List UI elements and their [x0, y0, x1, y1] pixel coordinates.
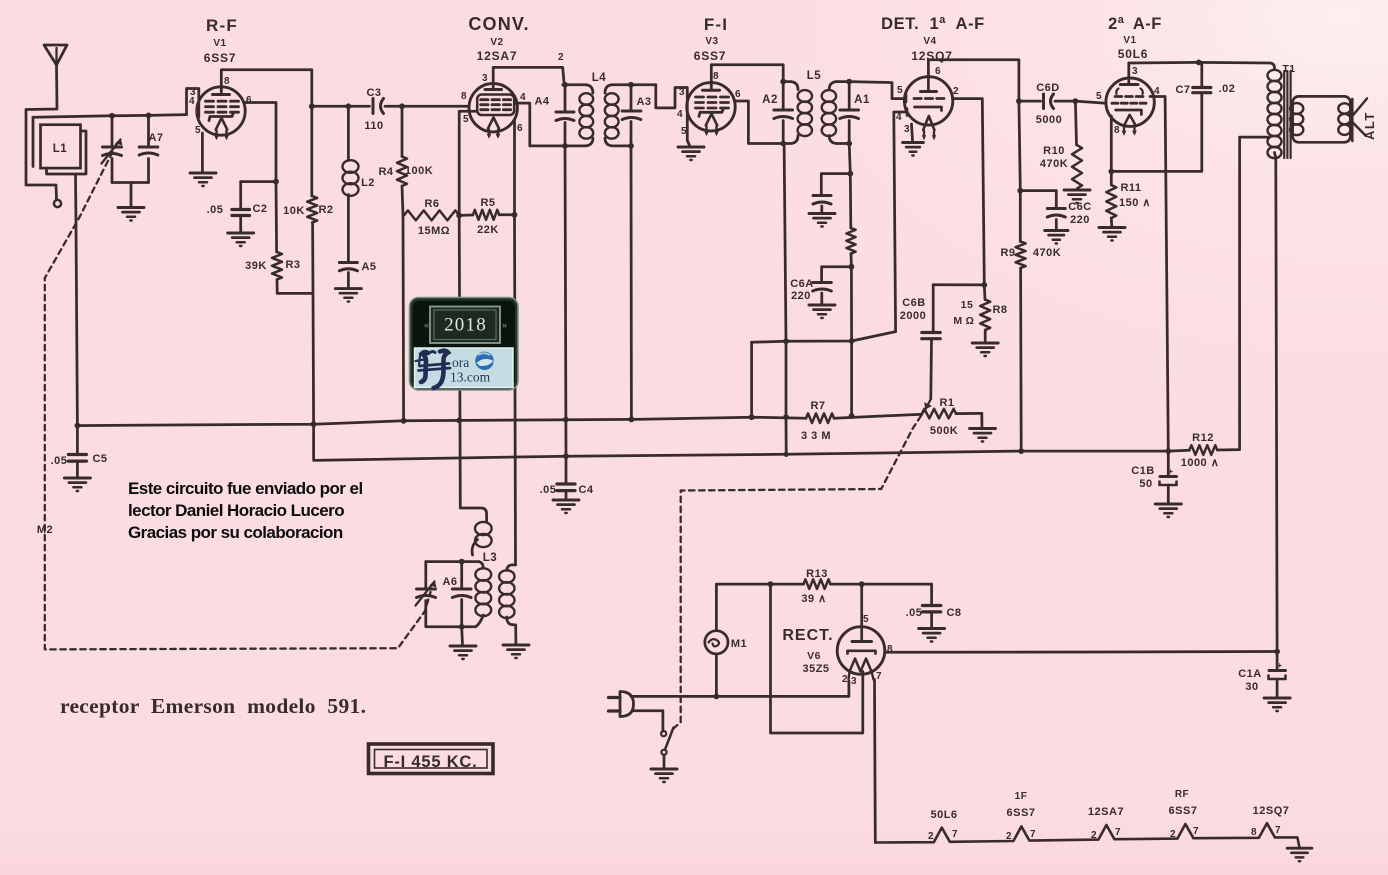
- wire 50L6 plate pin3: [1127, 63, 1130, 78]
- capacitor C5: [76, 426, 79, 453]
- node L4 prim bus2: [563, 453, 569, 459]
- svg-text:C8: C8: [946, 607, 961, 619]
- svg-text:3: 3: [482, 73, 488, 84]
- wire L3 tank top: [426, 560, 479, 563]
- svg-text:R10: R10: [1043, 145, 1065, 157]
- svg-text:C6D: C6D: [1036, 82, 1060, 94]
- svg-text:R-F: R-F: [206, 16, 238, 35]
- wire switch to ground: [663, 755, 666, 769]
- svg-text:A5: A5: [361, 261, 376, 273]
- svg-text:50L6: 50L6: [930, 809, 957, 821]
- svg-text:5000: 5000: [1036, 114, 1062, 126]
- gang dashed line M2 (tuning): [45, 143, 431, 649]
- wire R3 bottom to R2: [277, 280, 313, 294]
- resistor R3 39K: [272, 252, 282, 280]
- wire V4 pin2: [953, 99, 985, 285]
- svg-text:3: 3: [679, 87, 685, 98]
- node A4 bottom: [562, 143, 568, 149]
- svg-text:3: 3: [904, 124, 910, 135]
- svg-text:4: 4: [896, 112, 902, 123]
- svg-text:ALT: ALT: [1362, 111, 1377, 140]
- svg-text:.05: .05: [207, 204, 224, 216]
- node A3 bottom: [628, 143, 634, 149]
- svg-text:F-I 455 KC.: F-I 455 KC.: [383, 753, 477, 771]
- padder capacitor (osc, variable): [424, 562, 427, 589]
- resistor R6 15M: [404, 210, 459, 220]
- coil L3 feed: [475, 522, 492, 535]
- transformer T1 secondary: [1290, 103, 1303, 114]
- node C5: [75, 423, 81, 429]
- svg-text:ora: ora: [452, 355, 469, 370]
- wire R6 left to bus: [402, 215, 405, 420]
- node bus2 x1168: [1165, 448, 1171, 454]
- AVC bus wire: [77, 417, 806, 425]
- svg-text:L3: L3: [483, 552, 497, 564]
- svg-text:7: 7: [1275, 825, 1281, 836]
- ground filament string: [1287, 847, 1312, 850]
- svg-text:C5: C5: [92, 453, 107, 465]
- node C1A: [1274, 649, 1280, 655]
- ground L3 secondary: [503, 644, 529, 647]
- svg-text:R13: R13: [806, 568, 828, 580]
- node x786 bus1: [783, 414, 789, 420]
- coil L3 tank: [479, 562, 483, 568]
- svg-text:220: 220: [1070, 214, 1090, 226]
- node R13 left: [768, 581, 774, 587]
- ground C4: [553, 499, 579, 502]
- svg-text:470K: 470K: [1040, 158, 1068, 170]
- svg-text:7: 7: [876, 671, 882, 682]
- node plate line R2: [309, 103, 315, 109]
- node R11 top: [1108, 169, 1114, 175]
- node A1 bottom: [846, 141, 852, 147]
- svg-text:7: 7: [1030, 829, 1036, 840]
- coil L1 outer turn: [32, 117, 35, 166]
- capacitor C6C 220: [1020, 189, 1056, 192]
- ground R1: [970, 427, 996, 430]
- coil L1 box: [41, 125, 81, 168]
- wire V4 pin6 plate up: [928, 60, 1019, 101]
- svg-text:V4: V4: [923, 36, 936, 47]
- box F-I 455 KC: [369, 744, 494, 774]
- svg-text:8: 8: [461, 91, 467, 102]
- node x786 bus2: [784, 452, 789, 457]
- wire L2 to A5: [347, 195, 350, 262]
- ground below tuning caps: [118, 206, 144, 209]
- svg-text:6: 6: [935, 66, 941, 77]
- svg-text:10K: 10K: [283, 205, 305, 217]
- svg-text:500K: 500K: [930, 425, 958, 437]
- wire C2 branch: [241, 180, 276, 183]
- node bus1 x313: [311, 421, 317, 427]
- svg-text:C2: C2: [252, 203, 267, 215]
- speaker voice coil: [1338, 103, 1350, 113]
- tuning capacitor (gang, RF): [111, 116, 114, 147]
- svg-text:V6: V6: [807, 650, 821, 662]
- svg-text:2: 2: [953, 86, 959, 97]
- wire cap bottoms join: [112, 181, 149, 184]
- node C2 tap: [273, 179, 279, 185]
- speaker frame: [1293, 96, 1351, 142]
- wire V3 pin6: [735, 101, 783, 144]
- resistor R13 39: [771, 583, 804, 586]
- svg-text:M: M: [953, 315, 962, 327]
- svg-text:15MΩ: 15MΩ: [418, 225, 450, 237]
- svg-text:V1: V1: [1123, 35, 1136, 46]
- node A1 top: [846, 79, 852, 85]
- svg-text:3: 3: [1132, 66, 1138, 77]
- svg-text:+: +: [1168, 467, 1173, 476]
- svg-text:4: 4: [677, 109, 683, 120]
- svg-text:6: 6: [246, 95, 252, 106]
- ground power switch: [651, 768, 677, 771]
- capacitor C1B 50: [1167, 451, 1170, 474]
- svg-text:M2: M2: [37, 524, 53, 536]
- svg-text:5: 5: [897, 85, 903, 96]
- wire L5 secondary top to V4: [836, 82, 904, 99]
- resistor R8 15M: [983, 285, 986, 300]
- node A6 bottom: [459, 624, 465, 630]
- ground R11: [1099, 226, 1125, 229]
- wire M1 bottom: [715, 654, 718, 697]
- wire R13 right: [830, 583, 931, 586]
- resistor R2 10K: [307, 196, 317, 223]
- svg-text:.02: .02: [1219, 83, 1236, 95]
- node L2 top: [346, 103, 352, 109]
- wire 50L6 pin4 screen: [1150, 97, 1168, 452]
- svg-text:+: +: [1277, 661, 1282, 670]
- svg-text:8: 8: [1114, 125, 1120, 136]
- svg-text:R6: R6: [424, 198, 439, 210]
- wire V4 pin3 to ground: [912, 124, 913, 142]
- capacitor A2: [782, 82, 785, 110]
- svg-text:1000 ∧: 1000 ∧: [1181, 457, 1220, 469]
- wire L1 top to V1 grid: [33, 115, 187, 118]
- filament string wire: [875, 823, 1299, 848]
- antenna: [44, 45, 67, 65]
- node M1 bottom: [714, 694, 720, 700]
- svg-text:5: 5: [681, 126, 687, 137]
- svg-text:4: 4: [189, 96, 195, 107]
- ground C2: [228, 232, 254, 235]
- node R10 top: [1073, 98, 1079, 104]
- wire A2 node down to bus2: [784, 144, 786, 455]
- ground R10: [1064, 189, 1090, 192]
- svg-text:R3: R3: [285, 259, 300, 271]
- wire V1 plate pin8: [221, 70, 311, 107]
- antenna loop terminal: [54, 200, 61, 207]
- svg-text:A4: A4: [534, 96, 549, 108]
- node C6A tap: [849, 264, 855, 270]
- wire A3 top to V3 grid: [656, 85, 672, 108]
- wire L4 secondary top: [612, 83, 656, 86]
- power plug: [620, 692, 634, 717]
- svg-text:A7: A7: [148, 132, 163, 144]
- wire V2 pin4: [515, 103, 585, 146]
- svg-text:V2: V2: [490, 37, 503, 48]
- node C6D left: [1016, 98, 1022, 104]
- svg-text:V3: V3: [705, 36, 718, 47]
- ground R8: [972, 342, 998, 345]
- potentiometer R1 500K: [922, 409, 956, 419]
- node mid x786: [783, 338, 789, 344]
- svg-text:A2: A2: [762, 94, 778, 106]
- wire V2 pin6 down: [513, 119, 516, 215]
- tube V1 6SS7 R-F: [197, 87, 245, 135]
- ground V1 cathode: [190, 172, 216, 175]
- ground C6C: [1045, 229, 1068, 232]
- svg-text:A3: A3: [636, 96, 651, 108]
- svg-text:2ª A-F: 2ª A-F: [1108, 15, 1162, 33]
- svg-text:M1: M1: [731, 638, 747, 650]
- wire mid horizontal: [752, 332, 896, 343]
- coil L4 primary: [586, 85, 593, 93]
- svg-text:1F: 1F: [1015, 791, 1028, 802]
- svg-text:RECT.: RECT.: [782, 627, 833, 644]
- coil L2: [343, 160, 359, 173]
- svg-text:39K: 39K: [245, 260, 267, 272]
- svg-text:3: 3: [851, 676, 857, 687]
- node A4 top: [562, 82, 568, 88]
- watermark Hora13.com 2018: [410, 298, 519, 391]
- wire 50L6 cathode node: [1111, 95, 1202, 172]
- svg-text:»: »: [502, 320, 507, 330]
- svg-text:6: 6: [735, 89, 741, 100]
- resistor R12 1000: [1189, 445, 1217, 455]
- node R6 left bus1: [401, 418, 407, 424]
- svg-text:4: 4: [520, 92, 526, 103]
- svg-text:2: 2: [558, 52, 564, 63]
- node A6 top: [459, 559, 465, 565]
- wire R12 to T1 tap: [1217, 137, 1268, 450]
- svg-text:6: 6: [517, 123, 523, 134]
- wire V2 pin3 up: [493, 67, 564, 84]
- wire V1 pin6 down: [246, 103, 277, 253]
- wire heater tap loop: [771, 584, 863, 733]
- coil L4 secondary: [605, 85, 612, 93]
- ground A5: [335, 287, 361, 290]
- wire plate line to C3: [312, 105, 370, 108]
- svg-text:7: 7: [1193, 826, 1199, 837]
- capacitor C7 .02: [1193, 86, 1211, 89]
- svg-text:R9: R9: [1000, 247, 1015, 259]
- wire V2 pin5 to L3 feed: [459, 215, 486, 521]
- node mid-left bus1: [749, 414, 755, 420]
- svg-text:2000: 2000: [900, 310, 926, 322]
- wire L4 primary bottom to bus: [565, 146, 566, 456]
- arrow C6B to R1 wiper: [927, 399, 931, 408]
- svg-text:.05: .05: [906, 607, 923, 619]
- wire V3 plate pin8: [711, 65, 783, 86]
- capacitor A3: [630, 85, 633, 111]
- svg-text:C3: C3: [366, 87, 381, 99]
- svg-text:lector Daniel Horacio Lucero: lector Daniel Horacio Lucero: [128, 501, 344, 520]
- svg-text:R7: R7: [810, 400, 825, 412]
- resistor IF return: [849, 174, 852, 228]
- svg-text:3 3 M: 3 3 M: [801, 430, 831, 442]
- wire R2 top: [310, 106, 313, 196]
- wire L4 secondary to bus1: [630, 146, 633, 420]
- speaker cone: [1351, 99, 1354, 141]
- capacitor A5: [339, 261, 357, 264]
- svg-text:receptor Emerson modelo 591.: receptor Emerson modelo 591.: [60, 694, 366, 718]
- svg-text:12SA7: 12SA7: [1088, 806, 1124, 818]
- node tuning cap: [109, 113, 115, 119]
- node bypass cap tap: [847, 171, 853, 177]
- svg-text:R2: R2: [318, 204, 333, 216]
- wire L4 secondary bottom: [612, 145, 631, 148]
- capacitor C4: [565, 456, 568, 482]
- tube V2 12SA7 CONV: [469, 84, 517, 132]
- node V6 plate tap: [859, 581, 865, 587]
- node mid x851: [849, 338, 855, 344]
- ground C5: [64, 477, 90, 480]
- wire mid x851 to bus1: [850, 341, 853, 416]
- ground IF bypass cap: [809, 212, 835, 215]
- ground C1A: [1264, 697, 1290, 700]
- tube V4 12SQ7: [904, 77, 952, 125]
- node bus1 x459: [456, 418, 462, 424]
- svg-text:L4: L4: [592, 72, 607, 84]
- svg-text:C1A: C1A: [1238, 668, 1262, 680]
- svg-text:150 ∧: 150 ∧: [1119, 197, 1151, 209]
- svg-text:R8: R8: [992, 304, 1007, 316]
- svg-text:A6: A6: [442, 576, 457, 588]
- svg-text:35Z5: 35Z5: [802, 663, 829, 675]
- svg-text:F-I: F-I: [704, 15, 728, 34]
- wire V2 pin5 down: [459, 111, 477, 215]
- svg-text:2: 2: [842, 674, 848, 685]
- wire V1 cathode to ground: [201, 133, 204, 173]
- svg-text:220: 220: [791, 290, 811, 302]
- resistor R7 3.3M: [806, 413, 834, 423]
- switch contact top: [661, 731, 666, 736]
- svg-text:C7: C7: [1175, 84, 1190, 96]
- svg-text:Este circuito fue enviado por: Este circuito fue enviado por el: [128, 479, 363, 498]
- svg-text:50L6: 50L6: [1118, 47, 1149, 61]
- svg-text:R5: R5: [480, 197, 495, 209]
- node R4 top: [399, 103, 405, 109]
- capacitor C2: [232, 208, 250, 211]
- wire plug top prong: [631, 681, 849, 696]
- svg-text:7: 7: [1115, 827, 1121, 838]
- wire R9 top vertical: [1019, 101, 1020, 191]
- tube V1 50L6 2a A-F: [1106, 78, 1154, 126]
- wire R7 to R1: [834, 414, 922, 418]
- wire V6 pin7 down: [873, 680, 877, 843]
- wire C6D left: [1019, 100, 1041, 103]
- svg-text:DET. 1ª A-F: DET. 1ª A-F: [881, 15, 985, 33]
- tube V3 6SS7 F-I: [687, 83, 735, 131]
- svg-text:C6A: C6A: [790, 278, 814, 290]
- wire L3 secondary to ground: [514, 625, 517, 645]
- transformer T1 core: [1283, 71, 1285, 158]
- svg-text:A1: A1: [854, 94, 870, 106]
- wire grid bracket V3: [672, 88, 688, 141]
- switch contact bottom: [661, 750, 666, 755]
- coil L3 secondary: [507, 565, 516, 571]
- svg-text:C6B: C6B: [902, 297, 926, 309]
- gang dashed line volume/switch: [674, 408, 927, 729]
- svg-text:50: 50: [1139, 478, 1152, 490]
- ground C8: [919, 627, 945, 630]
- node x851 bus1: [849, 413, 855, 419]
- svg-text:R4: R4: [378, 166, 393, 178]
- wire L2 top: [347, 106, 350, 160]
- svg-text:6SS7: 6SS7: [1169, 805, 1198, 817]
- svg-text:5: 5: [463, 114, 469, 125]
- wire C3 to V2 pin8: [385, 105, 469, 108]
- svg-text:6SS7: 6SS7: [1007, 807, 1036, 819]
- capacitor A7: [147, 115, 150, 146]
- svg-text:2: 2: [1006, 831, 1012, 842]
- svg-text:15: 15: [961, 299, 974, 311]
- node A2 bottom: [780, 141, 786, 147]
- transformer T1 primary: [1270, 63, 1275, 68]
- svg-text:V1: V1: [213, 38, 226, 49]
- node L4 prim bus1: [563, 417, 569, 423]
- svg-text:CONV.: CONV.: [468, 14, 529, 34]
- ground V3 pin5: [687, 141, 690, 147]
- wire L4 top line: [563, 83, 586, 86]
- svg-text:Ω: Ω: [966, 315, 975, 327]
- capacitor A6: [460, 562, 463, 589]
- svg-text:8: 8: [1251, 827, 1257, 838]
- node C6C tap: [1017, 188, 1023, 194]
- wire antenna to L1 loop: [26, 65, 57, 200]
- svg-text:8: 8: [224, 76, 230, 87]
- svg-text:470K: 470K: [1033, 247, 1061, 259]
- svg-text:6SS7: 6SS7: [694, 49, 727, 63]
- svg-text:22K: 22K: [477, 224, 499, 236]
- svg-text:5: 5: [1096, 91, 1102, 102]
- coil L5 secondary: [829, 82, 836, 90]
- resistor R11 150: [1110, 171, 1113, 185]
- ground V4 pin3: [903, 141, 924, 144]
- capacitor (IF bypass): [821, 174, 850, 195]
- capacitor C1A 30: [1276, 652, 1279, 669]
- wire R1 right to ground: [980, 413, 983, 428]
- wire L5 secondary bottom: [836, 142, 849, 145]
- wire L1 to AVC bus: [76, 174, 78, 426]
- capacitor A4: [564, 85, 567, 112]
- coil L5 primary: [783, 82, 798, 90]
- svg-text:R11: R11: [1120, 182, 1141, 194]
- screen bus wire: [314, 424, 1190, 460]
- node A3 top: [628, 82, 634, 88]
- capacitor C6D: [1042, 94, 1045, 109]
- svg-text:2: 2: [928, 831, 934, 842]
- wire plug bottom prong: [633, 711, 663, 732]
- svg-text:«: «: [424, 320, 429, 330]
- wire V4 pin4 vertical: [894, 112, 905, 332]
- svg-text:.05: .05: [540, 484, 557, 496]
- capacitor C6B 2000: [933, 283, 984, 286]
- node A2 top: [780, 79, 786, 85]
- svg-text:5: 5: [863, 614, 869, 625]
- svg-text:110: 110: [364, 120, 383, 132]
- svg-text:39 ∧: 39 ∧: [801, 593, 826, 605]
- svg-text:100K: 100K: [405, 165, 433, 177]
- wire grid bracket V1: [187, 89, 199, 118]
- switch blade: [665, 728, 674, 750]
- ground C6A: [809, 304, 835, 307]
- wire V6 pin8 B+ line: [885, 650, 1277, 654]
- ground C1B: [1155, 503, 1181, 506]
- svg-text:7: 7: [952, 829, 958, 840]
- capacitor C6A 220: [822, 267, 852, 282]
- svg-text:R1: R1: [939, 397, 954, 409]
